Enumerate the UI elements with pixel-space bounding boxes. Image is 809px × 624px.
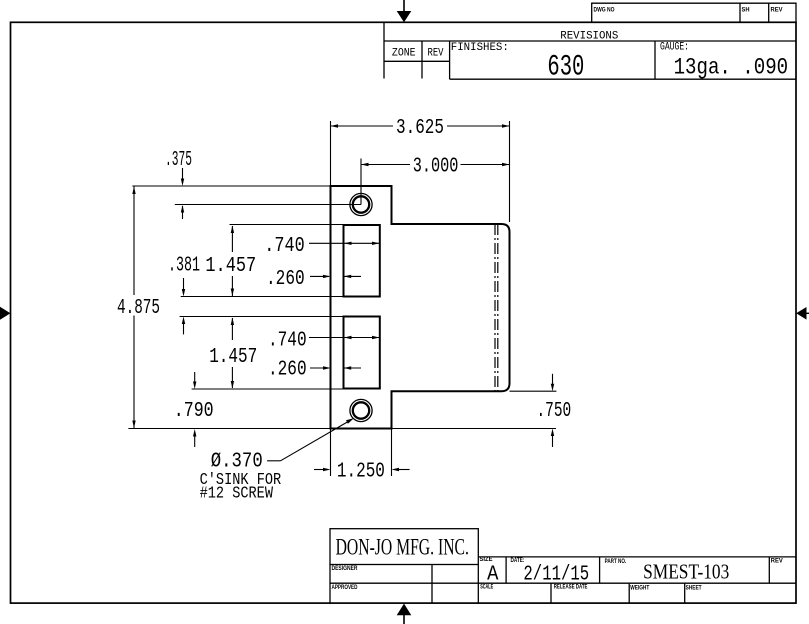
dimension text .375: [165, 148, 192, 172]
dimension .790 lines: [193, 372, 196, 447]
label WEIGHT: [630, 585, 649, 592]
label REV title block: [771, 558, 784, 565]
label RELEASE DATE: [554, 584, 588, 591]
extension line plate left bottom: [330, 429, 332, 477]
dimension .750 lines: [551, 374, 554, 447]
dimension .740 upper lines: [309, 242, 380, 245]
svg-text:.740: .740: [264, 234, 304, 258]
svg-text:3.625: 3.625: [396, 116, 444, 140]
value 13ga .090: [674, 55, 789, 81]
dimension text .750: [537, 399, 572, 423]
title block lines: [330, 557, 796, 603]
svg-text:Ø.370: Ø.370: [211, 450, 263, 474]
svg-text:PART NO.: PART NO.: [605, 558, 627, 565]
dimension .375 lines: [181, 168, 184, 219]
dimension .260 lower lines: [310, 366, 361, 369]
dimension text .740 lower: [268, 328, 307, 352]
label SIZE: [480, 556, 494, 563]
svg-text:.260: .260: [268, 358, 307, 382]
svg-text:GAUGE:: GAUGE:: [660, 42, 689, 54]
label GAUGE: [660, 42, 689, 54]
svg-text:.750: .750: [537, 399, 572, 423]
dimension text 1.250: [337, 459, 385, 483]
extension line plate top: [132, 185, 330, 187]
dimension .260 upper lines: [310, 275, 361, 278]
svg-text:SMEST-103: SMEST-103: [643, 560, 729, 584]
dimension text 3.625: [396, 116, 444, 140]
svg-text:1.457: 1.457: [209, 345, 257, 369]
dimension text .260 upper: [266, 267, 305, 291]
svg-text:4.875: 4.875: [117, 296, 160, 320]
drawing number strip box: [592, 3, 796, 22]
lower latch cutout: [344, 317, 380, 389]
dimension 1.457 upper lines: [231, 226, 234, 297]
svg-text:REVISIONS: REVISIONS: [560, 30, 618, 42]
label REV column: [428, 48, 444, 60]
extension line plate left top: [330, 121, 332, 186]
dimension text 1.457 lower: [209, 345, 257, 369]
dimension text .381: [168, 254, 200, 278]
bottom center tick: [397, 604, 412, 624]
svg-text:REV: REV: [428, 48, 444, 60]
svg-text:RELEASE DATE: RELEASE DATE: [554, 584, 588, 591]
part number SMEST-103: [643, 560, 729, 584]
extension line hole center vertical: [360, 159, 362, 205]
top screw hole: [350, 193, 372, 215]
right center tick: [796, 307, 809, 320]
svg-text:13ga. .090: 13ga. .090: [674, 55, 789, 81]
extension line hole center horizontal: [175, 204, 361, 206]
text REVISIONS: [560, 30, 618, 42]
svg-text:.260: .260: [266, 267, 305, 291]
dimension text 1.457 upper: [205, 254, 256, 278]
strike plate outline: [331, 186, 510, 429]
dimension .381 lines: [182, 278, 185, 334]
leader text #12 SCREW: [200, 484, 274, 503]
bend centerlines: [495, 224, 498, 391]
label SHEET: [686, 585, 702, 592]
svg-text:630: 630: [547, 51, 584, 85]
extension line upper cutout bottom: [181, 296, 344, 298]
value 630: [547, 51, 584, 85]
svg-text:SCALE: SCALE: [480, 583, 493, 590]
dimension .740 lower lines: [309, 336, 380, 339]
svg-text:APPROVED: APPROVED: [332, 584, 358, 591]
svg-text:DWG NO: DWG NO: [594, 7, 615, 14]
extension line lower cutout top: [180, 316, 344, 318]
dimension text 3.000: [413, 155, 459, 179]
extension line upper cutout top: [230, 224, 344, 226]
dimension 3.625 lines: [331, 124, 510, 127]
label DATE: [511, 557, 525, 564]
svg-text:1.250: 1.250: [337, 459, 385, 483]
svg-text:DESIGNER: DESIGNER: [332, 565, 358, 572]
dimension text .790: [174, 399, 214, 423]
label FINISHES: [451, 42, 509, 54]
dimension 1.457 lower lines: [231, 318, 234, 389]
bottom screw hole: [350, 399, 372, 421]
countersink leader line: [267, 418, 354, 461]
svg-text:.740: .740: [268, 328, 307, 352]
svg-text:.790: .790: [174, 399, 214, 423]
revisions table lines: [384, 22, 796, 79]
svg-text:FINISHES:: FINISHES:: [451, 42, 509, 54]
svg-text:1.457: 1.457: [205, 254, 256, 278]
size letter A: [487, 562, 498, 586]
leader text CSINK FOR: [200, 471, 282, 490]
label DESIGNER: [332, 565, 358, 572]
extension line plate bottom left: [128, 428, 330, 430]
svg-text:.375: .375: [165, 148, 192, 172]
extension line lip right top: [509, 121, 511, 222]
label SCALE: [480, 583, 493, 590]
svg-text:DON-JO MFG. INC.: DON-JO MFG. INC.: [336, 534, 469, 559]
company name DON-JO MFG INC: [336, 534, 469, 559]
top center tick: [397, 0, 412, 22]
extension line plate bottom right: [392, 428, 557, 430]
svg-text:3.000: 3.000: [413, 155, 459, 179]
svg-text:SH: SH: [742, 7, 750, 14]
svg-text:WEIGHT: WEIGHT: [630, 585, 649, 592]
label PART NO: [605, 558, 627, 565]
upper latch cutout: [344, 225, 380, 297]
company box: [330, 529, 478, 565]
svg-text:REV: REV: [771, 7, 784, 14]
svg-text:#12 SCREW: #12 SCREW: [200, 484, 274, 503]
dimension 4.875 lines: [132, 187, 135, 429]
left center tick: [0, 307, 10, 320]
dimension 3.000 lines: [361, 163, 510, 166]
svg-text:ZONE: ZONE: [392, 48, 416, 60]
dimension text .260 lower: [268, 358, 307, 382]
dimension text 4.875: [117, 296, 160, 320]
extension line lip bottom right: [510, 390, 557, 392]
date value: [523, 562, 589, 586]
svg-text:SHEET: SHEET: [686, 585, 702, 592]
dimension text .740 upper: [264, 234, 304, 258]
extension line lower cutout bottom: [192, 388, 344, 390]
label DWG NO: [594, 7, 615, 14]
dimension 1.250 lines: [314, 468, 410, 471]
label SH: [742, 7, 750, 14]
svg-text:REV: REV: [771, 558, 784, 565]
svg-text:DATE:: DATE:: [511, 557, 525, 564]
leader text diameter .370: [211, 450, 263, 474]
extension line step bottom: [391, 429, 393, 477]
svg-text:.381: .381: [168, 254, 200, 278]
label REV top strip: [771, 7, 784, 14]
label ZONE: [392, 48, 416, 60]
label APPROVED: [332, 584, 358, 591]
